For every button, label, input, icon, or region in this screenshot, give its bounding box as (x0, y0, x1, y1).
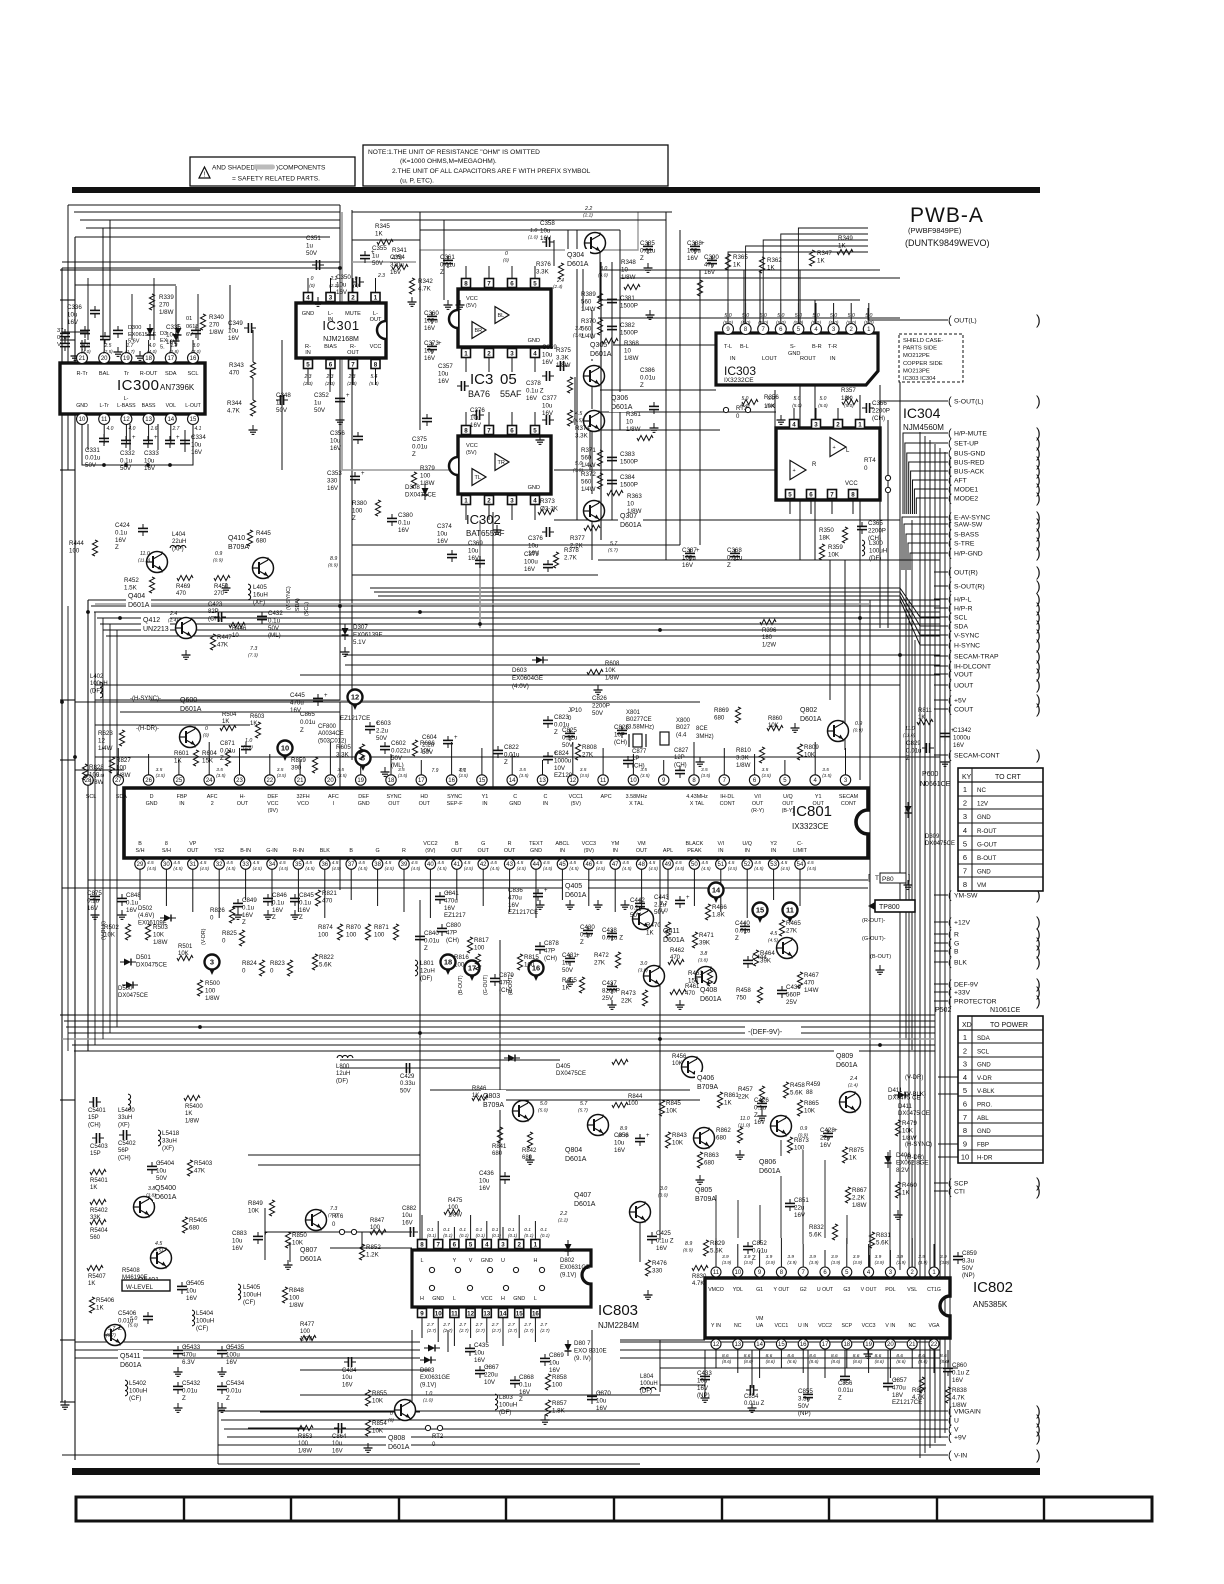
wire (480, 1099, 700, 1101)
svg-text:(5.0): (5.0) (758, 320, 768, 326)
svg-text:): ) (1036, 747, 1041, 763)
wire (75, 1341, 420, 1343)
IC801 pin 31 (188, 859, 198, 869)
resistor R374 (567, 410, 572, 426)
wire (905, 560, 907, 1040)
resistor R817 (467, 937, 472, 953)
svg-text:(2.7): (2.7) (492, 1328, 502, 1333)
wire (329, 368, 331, 392)
svg-text:1/8W: 1/8W (89, 779, 104, 786)
svg-text:-(DEF-9V)-: -(DEF-9V)- (748, 1029, 783, 1036)
svg-text:52: 52 (744, 862, 751, 868)
wire (67, 606, 69, 1051)
svg-text:39K: 39K (760, 957, 772, 964)
svg-text:IX3323CE: IX3323CE (792, 822, 828, 831)
svg-text:CF800: CF800 (318, 724, 337, 730)
IC802 pin 22 (929, 1339, 939, 1349)
wire (95, 724, 250, 726)
svg-text:H/P-MUTE: H/P-MUTE (954, 431, 987, 438)
capacitor C360 (427, 315, 437, 317)
svg-text:16V: 16V (542, 410, 554, 417)
wire (763, 240, 868, 303)
resistor R862 (737, 1127, 742, 1143)
svg-text:2.2: 2.2 (584, 206, 592, 212)
svg-text:R503: R503 (153, 924, 168, 931)
svg-text:P80: P80 (882, 876, 894, 883)
wire (352, 574, 598, 576)
svg-text:C433: C433 (697, 1370, 712, 1377)
svg-text:(: ( (948, 315, 952, 327)
svg-text:R822: R822 (319, 954, 334, 961)
svg-text:(5V): (5V) (571, 801, 581, 807)
svg-text:): ) (1036, 677, 1041, 693)
capacitor C426 (757, 1102, 767, 1104)
svg-text:(0.1): (0.1) (427, 1233, 437, 1238)
svg-text:SCL: SCL (86, 794, 97, 800)
svg-text:(4.5): (4.5) (754, 866, 764, 871)
IC803 pin 1 (531, 1240, 540, 1249)
svg-text:(CH): (CH) (872, 415, 885, 422)
wire (598, 317, 900, 319)
transistor Q410 B709A (253, 558, 274, 579)
svg-text:(1.0): (1.0) (528, 235, 538, 241)
resistor R363 (607, 490, 623, 495)
svg-text:0: 0 (355, 276, 358, 282)
wire (659, 860, 661, 1240)
IC302 pin 6 (508, 426, 517, 435)
wire (120, 711, 340, 713)
svg-text:53: 53 (770, 862, 777, 868)
svg-text:10K: 10K (828, 551, 840, 558)
svg-text:C-: C- (797, 841, 803, 847)
capacitor C435 (465, 1347, 475, 1349)
svg-text:16V: 16V (438, 378, 450, 385)
capacitor C425 (647, 1235, 657, 1237)
wire (72, 1044, 935, 1046)
svg-text:(4.4: (4.4 (676, 732, 687, 738)
svg-text:13: 13 (483, 1310, 490, 1317)
resistor R603 (255, 722, 260, 738)
svg-text:C355: C355 (372, 245, 387, 252)
svg-text:8200P: 8200P (602, 987, 620, 994)
svg-text:7: 7 (487, 280, 491, 287)
svg-text:C883: C883 (232, 1230, 247, 1237)
svg-text:10u: 10u (479, 1177, 490, 1184)
svg-text:(5.0): (5.0) (829, 320, 839, 326)
svg-text:(4.5): (4.5) (701, 866, 711, 871)
capacitor C382 (607, 325, 617, 327)
svg-text:EX06139E: EX06139E (353, 631, 383, 638)
transistor Q307 D601A (584, 501, 605, 522)
svg-text:IC802: IC802 (973, 1279, 1013, 1296)
svg-text:11.0: 11.0 (740, 1116, 750, 1122)
ground (647, 263, 649, 268)
svg-text:R837: R837 (912, 1388, 927, 1394)
transistor Q411 D601A (644, 966, 665, 987)
svg-text:8.9: 8.9 (330, 556, 337, 562)
svg-text:4.5: 4.5 (575, 411, 582, 417)
svg-text:Q809: Q809 (836, 1053, 853, 1060)
transistor Q305 D601A (584, 366, 605, 387)
svg-text:100uH: 100uH (243, 1291, 261, 1298)
svg-text:R601: R601 (174, 750, 189, 757)
svg-text:C864: C864 (332, 1434, 347, 1440)
svg-text:14: 14 (500, 1310, 507, 1317)
svg-text:4.1: 4.1 (195, 426, 202, 432)
svg-text:6: 6 (453, 1241, 457, 1248)
diode D500 (126, 982, 133, 989)
svg-text:C603: C603 (376, 720, 391, 727)
IC803 pin 13 (482, 1309, 491, 1318)
svg-text:1.8K: 1.8K (552, 1407, 566, 1414)
svg-text:0.1u: 0.1u (115, 529, 128, 536)
resistor R815 (517, 954, 522, 970)
svg-text:(3.9): (3.9) (918, 1260, 928, 1265)
svg-text:15: 15 (756, 906, 764, 915)
svg-text:C878: C878 (544, 940, 559, 947)
svg-text:Z: Z (412, 451, 416, 458)
wire (589, 430, 591, 470)
svg-text:(3.8): (3.8) (698, 958, 708, 964)
svg-text:IN: IN (830, 356, 836, 362)
svg-text:46: 46 (585, 862, 592, 868)
svg-text:EX06159 E: EX06159 E (128, 332, 157, 338)
svg-text:(3.5): (3.5) (216, 773, 226, 778)
svg-text:35: 35 (295, 862, 302, 868)
svg-text:D601A: D601A (800, 716, 822, 723)
svg-text:470: 470 (804, 979, 815, 986)
svg-text:+: + (544, 888, 548, 894)
svg-text:X TAL: X TAL (629, 801, 643, 807)
capacitor C5403 (95, 1133, 97, 1143)
resistor R861 (717, 1092, 722, 1108)
svg-text:IC3: IC3 (470, 371, 493, 388)
svg-text:R832: R832 (809, 1224, 824, 1231)
svg-text:2: 2 (351, 294, 355, 301)
svg-text:16V: 16V (794, 1212, 806, 1219)
svg-text:1K: 1K (849, 1154, 857, 1161)
IC803 pin 6 (450, 1240, 459, 1249)
IC803 pin drops (421, 1215, 423, 1239)
svg-text:IN: IN (305, 350, 311, 356)
svg-text:1K: 1K (250, 721, 257, 727)
svg-text:R858: R858 (552, 1374, 567, 1381)
svg-text:C5402: C5402 (118, 1141, 136, 1147)
svg-text:11: 11 (451, 1310, 458, 1317)
svg-text:D601A: D601A (565, 1156, 587, 1163)
svg-text:EX0604GE: EX0604GE (512, 675, 543, 682)
capacitor C846 (263, 897, 273, 899)
svg-text:10K: 10K (672, 1061, 683, 1067)
svg-text:470u: 470u (892, 1384, 906, 1391)
wire (345, 664, 940, 666)
svg-text:RT2: RT2 (432, 1434, 444, 1440)
svg-text:(5.0): (5.0) (811, 320, 821, 326)
svg-text:47K: 47K (217, 641, 229, 648)
svg-text:IN: IN (612, 848, 617, 854)
svg-text:R467: R467 (804, 972, 819, 979)
ground (653, 423, 655, 428)
svg-text:6: 6 (963, 1100, 967, 1109)
svg-text:EXO 8310E: EXO 8310E (574, 1347, 607, 1354)
svg-text:10: 10 (734, 1270, 741, 1276)
svg-text:Ø3-3K: Ø3-3K (540, 505, 559, 512)
svg-text:H-SYNC: H-SYNC (954, 643, 980, 650)
resistor R830 (692, 1265, 708, 1270)
svg-text:16V: 16V (474, 1357, 486, 1364)
svg-text:R389: R389 (581, 291, 596, 298)
svg-text:R472: R472 (594, 952, 609, 959)
wire (382, 600, 946, 645)
resistor R380 (375, 500, 380, 516)
coil L803 (495, 1394, 498, 1410)
svg-text:(2.2): (2.2) (583, 213, 593, 219)
svg-text:50V: 50V (276, 407, 288, 414)
wire (61, 268, 63, 1402)
wire (60, 339, 75, 341)
svg-text:5: 5 (533, 427, 537, 434)
IC801 pin 28 (83, 775, 93, 785)
svg-text:BIAS: BIAS (324, 344, 337, 350)
svg-text:C5405: C5405 (186, 1280, 205, 1287)
svg-text:100: 100 (420, 472, 431, 479)
svg-text:L-Tr: L-Tr (100, 403, 110, 409)
svg-text:5.7: 5.7 (108, 1326, 116, 1332)
svg-text:= SAFETY RELATED PARTS.: = SAFETY RELATED PARTS. (232, 176, 320, 183)
wire (947, 1350, 949, 1368)
svg-text:1/4W: 1/4W (804, 987, 819, 994)
IC305 pin 6 (508, 279, 517, 288)
svg-text:R372: R372 (581, 471, 596, 478)
svg-text:50: 50 (691, 862, 698, 868)
resistor R873 (787, 1137, 792, 1153)
svg-text:L-BASS: L-BASS (117, 403, 136, 409)
wire (265, 1231, 412, 1233)
svg-text:T-L: T-L (724, 344, 732, 350)
svg-text:YM-SW: YM-SW (954, 893, 978, 900)
IC301 pin 3 (326, 293, 335, 302)
svg-text:100: 100 (116, 764, 127, 771)
svg-text:(2.7): (2.7) (540, 1328, 550, 1333)
wire (759, 1205, 761, 1244)
wire (746, 246, 868, 303)
svg-text:C846: C846 (272, 892, 287, 899)
svg-text:R604: R604 (202, 750, 217, 757)
svg-text:C869: C869 (549, 1352, 564, 1359)
svg-text:100: 100 (374, 931, 385, 938)
wire (620, 1339, 705, 1341)
safety note box (190, 157, 355, 186)
svg-text:0.1u: 0.1u (268, 617, 281, 624)
svg-text:100: 100 (552, 1381, 563, 1388)
svg-text:R476: R476 (652, 1260, 667, 1267)
svg-text:N0661CE: N0661CE (920, 781, 951, 788)
svg-text:7: 7 (963, 1113, 967, 1122)
svg-text:10K: 10K (902, 1127, 914, 1134)
svg-text:12uH: 12uH (420, 967, 435, 974)
svg-text:C336: C336 (67, 304, 82, 311)
svg-text:0: 0 (311, 276, 314, 282)
capacitor C423 (217, 612, 219, 622)
svg-text:0.1: 0.1 (460, 768, 467, 774)
svg-text:(2.7): (2.7) (524, 1328, 534, 1333)
svg-text:Y1: Y1 (482, 794, 489, 800)
resistor R843 (665, 1132, 670, 1148)
resistor R504 (220, 725, 236, 730)
svg-text:R342: R342 (418, 278, 433, 285)
svg-text:): ) (1036, 490, 1041, 506)
svg-text:C824: C824 (554, 750, 569, 757)
wire (659, 1340, 661, 1392)
svg-text:3.8: 3.8 (700, 951, 707, 957)
capacitor C882 (409, 1227, 411, 1237)
svg-text:10u: 10u (191, 441, 202, 448)
resistor R5401 (90, 1169, 106, 1174)
svg-text:+9V: +9V (954, 1435, 967, 1442)
svg-text:18K: 18K (819, 534, 831, 541)
svg-text:C: C (513, 794, 517, 800)
svg-text:EX062 8GE: EX062 8GE (896, 1159, 929, 1166)
svg-text:C334: C334 (191, 434, 206, 441)
svg-text:1500P: 1500P (620, 458, 638, 465)
svg-text:1K: 1K (96, 1304, 104, 1311)
test point tag 10 (278, 741, 293, 756)
diode D603x (536, 657, 543, 664)
svg-text:TP800: TP800 (879, 904, 900, 911)
ground (624, 900, 626, 905)
svg-text:10K: 10K (804, 1107, 816, 1114)
IC801 pin 43 (504, 859, 514, 869)
svg-text:8: 8 (374, 361, 378, 368)
wire (95, 756, 940, 758)
svg-text:OUT: OUT (813, 801, 825, 807)
svg-text:5.6K: 5.6K (790, 1089, 804, 1096)
svg-text:Z: Z (640, 255, 644, 262)
svg-text:Z: Z (220, 755, 224, 762)
wire (300, 1394, 660, 1396)
svg-text:C825: C825 (562, 727, 577, 734)
capacitor C355 (360, 254, 370, 256)
svg-text:0.01u Z: 0.01u Z (602, 934, 623, 941)
svg-text:16V: 16V (437, 538, 449, 545)
IC IC301 NJM2168M (296, 303, 386, 358)
svg-text:0.1u Z: 0.1u Z (526, 387, 544, 394)
svg-text:ABL: ABL (977, 1115, 989, 1122)
svg-text:4: 4 (963, 1073, 967, 1082)
svg-text:19: 19 (357, 778, 364, 784)
wire (197, 294, 199, 340)
svg-text:C438: C438 (602, 927, 617, 934)
svg-text:EX0631GE: EX0631GE (420, 1375, 450, 1381)
wire (86, 227, 340, 229)
wire (914, 489, 946, 514)
svg-text:(3.9): (3.9) (787, 1260, 797, 1265)
svg-text:(5.0): (5.0) (766, 403, 776, 408)
svg-text:7: 7 (487, 427, 491, 434)
IC300 pin stubs (81, 340, 83, 352)
IC300 pin 14 (165, 414, 176, 425)
svg-text:NOTE:1.THE UNIT OF RESISTANCE: NOTE:1.THE UNIT OF RESISTANCE "OHM" IS O… (368, 149, 540, 156)
wire (660, 1367, 958, 1369)
resistor R479 (895, 1120, 900, 1136)
svg-text:10u: 10u (542, 351, 553, 358)
svg-text:0.1u: 0.1u (120, 457, 133, 464)
svg-text:B-L: B-L (740, 344, 749, 350)
svg-text:C854: C854 (744, 1394, 759, 1400)
svg-text:GND: GND (528, 338, 540, 344)
IC802 pin 3 (885, 1267, 895, 1277)
svg-text:R447: R447 (217, 634, 232, 641)
svg-text:C358: C358 (540, 220, 555, 227)
shaded wire (479, 520, 481, 628)
svg-text:560: 560 (581, 478, 592, 485)
resistor R852 (359, 1244, 364, 1260)
svg-text:1u: 1u (562, 959, 569, 966)
svg-text:(0.9): (0.9) (853, 728, 863, 734)
ground (459, 300, 461, 305)
svg-text:1/4W: 1/4W (581, 306, 596, 313)
svg-text:R470: R470 (646, 922, 661, 929)
svg-text:(DF): (DF) (869, 555, 881, 562)
IC302 pin 2 (485, 496, 494, 505)
resistor R5400 (184, 1095, 200, 1100)
resistor R339 (149, 294, 154, 310)
svg-text:5.6K: 5.6K (809, 1231, 823, 1238)
svg-text:(5.0): (5.0) (818, 403, 828, 408)
IC300 pin 10 (77, 414, 88, 425)
svg-text:SCP: SCP (841, 1323, 852, 1329)
IC801 pin 51 (716, 859, 726, 869)
capacitor C849 (233, 902, 243, 904)
capacitor C840 (415, 935, 425, 937)
svg-text:6: 6 (510, 427, 514, 434)
svg-text:C867: C867 (484, 1364, 499, 1371)
svg-text:1/8W: 1/8W (159, 309, 174, 316)
svg-text:5.0: 5.0 (540, 1101, 547, 1107)
IC801 pin 19 (356, 775, 366, 785)
svg-text:SYNC: SYNC (387, 794, 402, 800)
svg-text:2.2K: 2.2K (852, 1194, 866, 1201)
svg-text:4: 4 (533, 350, 537, 357)
IC300 pin 13 (143, 414, 154, 425)
svg-text:IN: IN (744, 848, 749, 854)
resistor R623 (119, 730, 124, 746)
svg-text:1.8K: 1.8K (712, 911, 726, 918)
resistor R857 (545, 1400, 550, 1416)
svg-text:C865: C865 (300, 711, 315, 718)
resistor R810 (759, 747, 764, 763)
svg-text:D601A: D601A (611, 404, 633, 411)
svg-text:1/8W: 1/8W (624, 355, 639, 362)
svg-text:(5V): (5V) (466, 303, 477, 309)
svg-text:C823: C823 (554, 714, 569, 721)
tag 11 (783, 903, 798, 918)
svg-text:3.3u: 3.3u (962, 1257, 975, 1264)
ground (287, 1260, 289, 1265)
capacitor C604 (443, 739, 453, 741)
svg-text:01: 01 (186, 316, 192, 322)
svg-text:1P: 1P (632, 756, 639, 762)
svg-text:16V: 16V (519, 1389, 531, 1396)
resistor R456 (612, 1059, 628, 1064)
svg-text:Y: Y (453, 1258, 457, 1264)
svg-text:(11.0): (11.0) (738, 1123, 751, 1129)
ground (597, 685, 599, 690)
ground (649, 310, 651, 315)
svg-text:D601A: D601A (567, 261, 589, 268)
wire (598, 299, 860, 301)
IC303 pin 7 (758, 324, 769, 335)
